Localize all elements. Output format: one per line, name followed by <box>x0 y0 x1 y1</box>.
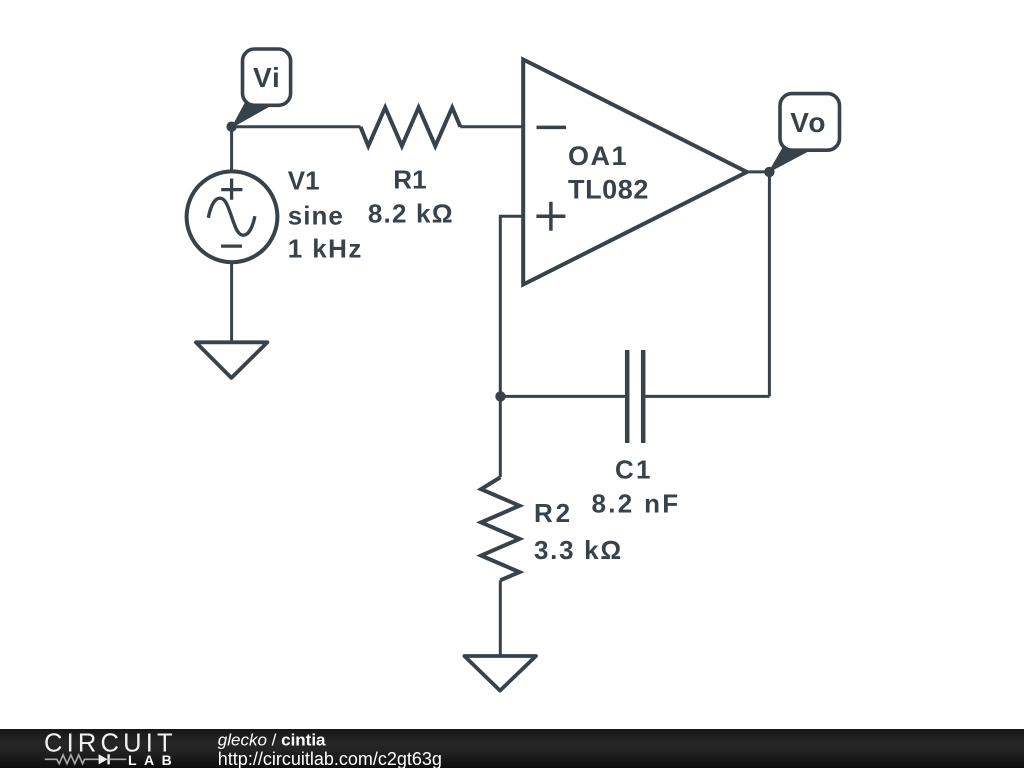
footer bar <box>0 729 1024 768</box>
ground below R2 <box>464 656 536 691</box>
svg-text:R2: R2 <box>534 498 573 528</box>
wire node down to R2 <box>499 396 502 477</box>
wire V1 to ground <box>230 262 233 342</box>
op-amp plus symbol <box>536 202 565 231</box>
wire op-amp output <box>747 170 770 173</box>
svg-text:8.2 nF: 8.2 nF <box>592 489 681 519</box>
svg-text:C1: C1 <box>615 454 653 484</box>
logo diode <box>99 754 127 764</box>
svg-text:sine: sine <box>288 201 344 231</box>
node Vo dot <box>764 167 774 177</box>
wire Vi node to R1 <box>232 125 361 128</box>
resistor R1 <box>361 108 461 147</box>
capacitor C1 <box>627 350 643 443</box>
svg-text:Vo: Vo <box>790 107 827 138</box>
op-amp OA1 <box>523 60 747 285</box>
svg-text:3.3 kΩ: 3.3 kΩ <box>534 535 623 565</box>
wire C1 left plate to node <box>501 395 626 398</box>
node Vi dot <box>226 122 236 132</box>
svg-text:8.2 kΩ: 8.2 kΩ <box>368 199 454 229</box>
svg-text:OA1: OA1 <box>568 141 628 171</box>
wire R1 to op-amp inverting input <box>460 125 523 128</box>
node feedback junction <box>495 391 505 401</box>
svg-text:Vi: Vi <box>253 62 281 93</box>
svg-text:TL082: TL082 <box>568 174 649 204</box>
svg-text:R1: R1 <box>393 164 426 194</box>
ground below V1 <box>196 342 268 378</box>
svg-text:V1: V1 <box>288 165 320 195</box>
flag Vo <box>771 94 840 171</box>
svg-text:http://circuitlab.com/c2gt63g: http://circuitlab.com/c2gt63g <box>218 749 442 768</box>
flag Vi <box>234 49 291 126</box>
svg-text:glecko / cintia: glecko / cintia <box>218 731 326 750</box>
wire output down <box>768 172 771 397</box>
svg-text:1 kHz: 1 kHz <box>288 234 363 264</box>
wire output to C1 right plate <box>645 395 770 398</box>
op-amp minus symbol <box>537 126 567 130</box>
voltage source V1 <box>187 171 278 262</box>
wire Vi node to V1 <box>230 127 233 172</box>
logo resistor wire <box>45 755 99 764</box>
wire node up to plus input <box>500 216 523 396</box>
svg-text:LAB: LAB <box>128 752 179 768</box>
wire R2 to ground <box>499 580 502 656</box>
resistor R2 <box>481 477 519 580</box>
